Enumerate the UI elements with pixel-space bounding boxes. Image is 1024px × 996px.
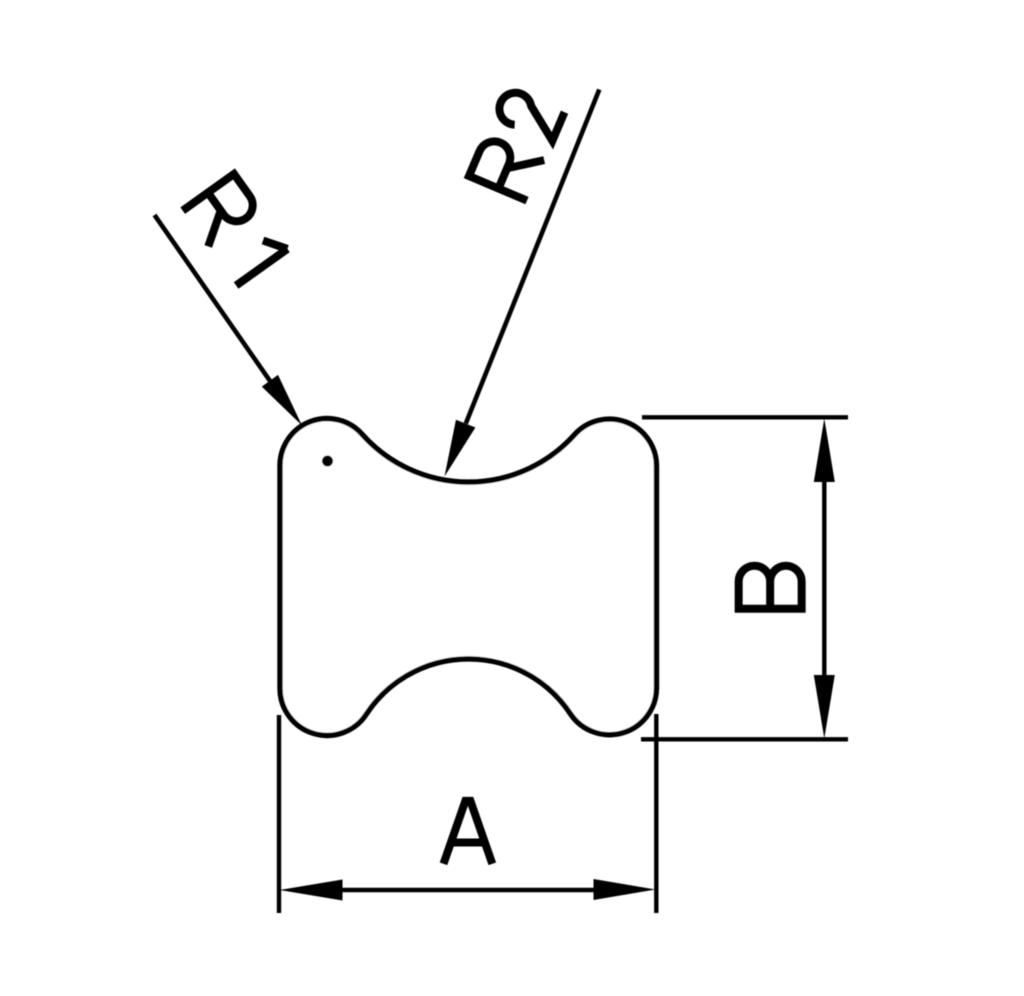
A arrow left <box>280 880 343 901</box>
B dimension line <box>822 479 826 678</box>
radius center dot <box>322 456 333 467</box>
label A <box>444 801 493 864</box>
leader line R2 <box>466 90 600 424</box>
B arrow up <box>814 419 835 483</box>
arrowhead R2 <box>445 420 476 477</box>
profile outline (bone-shaped cross-section) <box>280 419 657 736</box>
A arrow right <box>594 879 656 900</box>
label R2 <box>465 86 564 201</box>
A dimension: left extension line <box>277 715 281 913</box>
leader line R1 <box>155 215 270 381</box>
A dimension: right extension line <box>654 714 658 913</box>
arrowhead R1 <box>262 375 302 426</box>
B arrow down <box>814 675 835 739</box>
A dimension line <box>341 888 595 892</box>
label B <box>735 566 806 609</box>
label R1 <box>183 172 291 286</box>
B dimension: bottom extension line <box>641 737 848 741</box>
B dimension: top extension line <box>642 415 848 419</box>
